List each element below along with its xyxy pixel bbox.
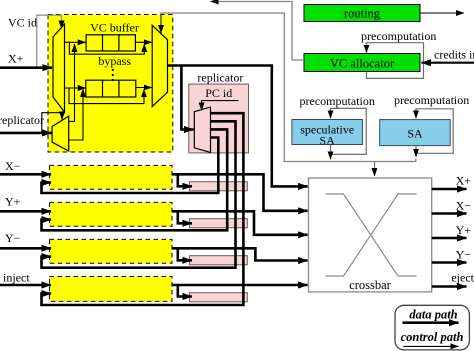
demux D1 [53,24,65,112]
inject input arrow [0,284,51,287]
replicator demux R1 [194,107,210,152]
crossbar X line 1 [326,194,417,276]
crossbar output X+ [432,188,467,191]
demux D2 (replica injection) [52,116,69,151]
replica fan-out 1 to inject return [42,113,244,305]
svg-text:X+: X+ [456,174,472,188]
svg-text:control path: control path [401,330,464,344]
replica fan-out 2 to Y- return [42,121,236,267]
control path arrow [403,345,458,347]
X+ branch into replicator R1 [181,66,193,130]
svg-text:PC id: PC id [205,86,232,100]
lower bypass wire [69,88,144,104]
svg-text:eject: eject [451,271,474,285]
PC id control wire [202,101,239,111]
svg-text:X−: X− [5,159,21,173]
Y+ to crossbar input 3 [172,211,308,235]
SA loop [416,109,453,154]
svg-text:replicator: replicator [0,113,44,127]
VC id tap wire [37,15,62,66]
speculative SA blue box [292,120,363,145]
svg-text:precomputation: precomputation [361,29,436,43]
VC dots [112,69,114,71]
svg-text:precomputation: precomputation [394,93,469,107]
X- branch to replicator table [178,174,192,186]
replicator input arrow [0,132,52,135]
crossbar output Y- [432,261,467,264]
svg-text:Y−: Y− [456,248,472,262]
svg-text:routing: routing [344,7,381,21]
lower VC buffer FIFO [86,80,136,97]
Y- to crossbar input 4 [172,248,308,260]
inject branch to replicator table [178,285,192,297]
D2 replica out to upper FIFO [69,44,75,121]
D1 to upper VC buffer wire [65,41,86,43]
svg-text:inject: inject [3,270,30,284]
svg-text:SA: SA [407,126,423,140]
X+ data out to crossbar input 1 [168,66,308,187]
input unit Y+ yellow dashed box [50,202,173,226]
legend box [395,305,469,350]
crossbar output Y+ [432,237,467,240]
upper VC buffer FIFO [86,35,135,51]
Y+ branch to replicator table [178,211,192,223]
input unit X+ yellow dashed box [48,15,173,153]
replica fan-out 4 to X- return [42,138,219,194]
Y- branch to replicator table [178,248,192,260]
input unit Y- yellow dashed box [50,239,173,263]
D2 control loop [42,113,62,133]
input unit X- yellow dashed box [50,165,173,189]
replicator table Y- small pink box [190,256,248,265]
credits in arrow [422,62,474,64]
upper FIFO output wire [135,41,151,43]
crossbar select tap [374,162,376,177]
D2 replica out to lower FIFO [69,89,83,140]
control bus: SA outputs to mux select [161,13,416,162]
svg-text:VC id: VC id [8,16,37,30]
replicator PC id pink box [189,84,249,153]
crossbar output X- [432,212,467,215]
wire VC allocator to top-left arrow [211,2,305,61]
VC allocator precomputation loop [367,43,424,79]
svg-text:X+: X+ [8,52,24,66]
svg-text:Y+: Y+ [456,223,472,237]
speculative SA output arrow [330,145,332,160]
svg-text:bypass: bypass [98,54,131,68]
routing green box [304,5,420,22]
X- to crossbar input 2 [172,174,308,211]
input unit inject yellow dashed box [50,277,173,302]
inject to crossbar input 5 [172,284,308,287]
routing output arrow [420,12,464,14]
SA output arrow [415,146,417,157]
svg-text:credits in: credits in [434,48,474,62]
Y+ input arrow [0,210,51,213]
X+ input arrow [0,66,52,69]
lower FIFO output wire [136,87,152,89]
Y- input arrow [0,247,51,250]
svg-text:X−: X− [456,199,472,213]
SA blue box [380,120,451,146]
svg-text:data path: data path [409,308,457,322]
crossbar X line 2 [326,194,417,276]
upper bypass wire [69,42,144,54]
VC allocator green box [304,54,420,72]
svg-text:VC buffer: VC buffer [90,20,139,34]
replicator table inject small pink box [190,293,248,302]
replicator table Y+ small pink box [190,219,248,228]
replicator table X- small pink box [190,182,248,191]
svg-text:Y+: Y+ [5,194,21,208]
replica fan-out 3 to Y+ return [42,129,228,230]
D1 to lower VC buffer wire [65,87,86,89]
svg-text:SA: SA [320,134,336,148]
data path arrow [402,321,458,324]
mux M1 [152,25,167,106]
svg-text:Y−: Y− [5,231,21,245]
svg-text:precomputation: precomputation [300,94,375,108]
crossbar output eject [432,285,467,288]
crossbar box [309,178,432,292]
speculative SA loop [331,108,367,154]
X- input arrow [0,173,51,176]
svg-text:VC allocator: VC allocator [330,57,395,71]
svg-text:replicator: replicator [197,71,243,85]
svg-text:crossbar: crossbar [349,278,391,292]
